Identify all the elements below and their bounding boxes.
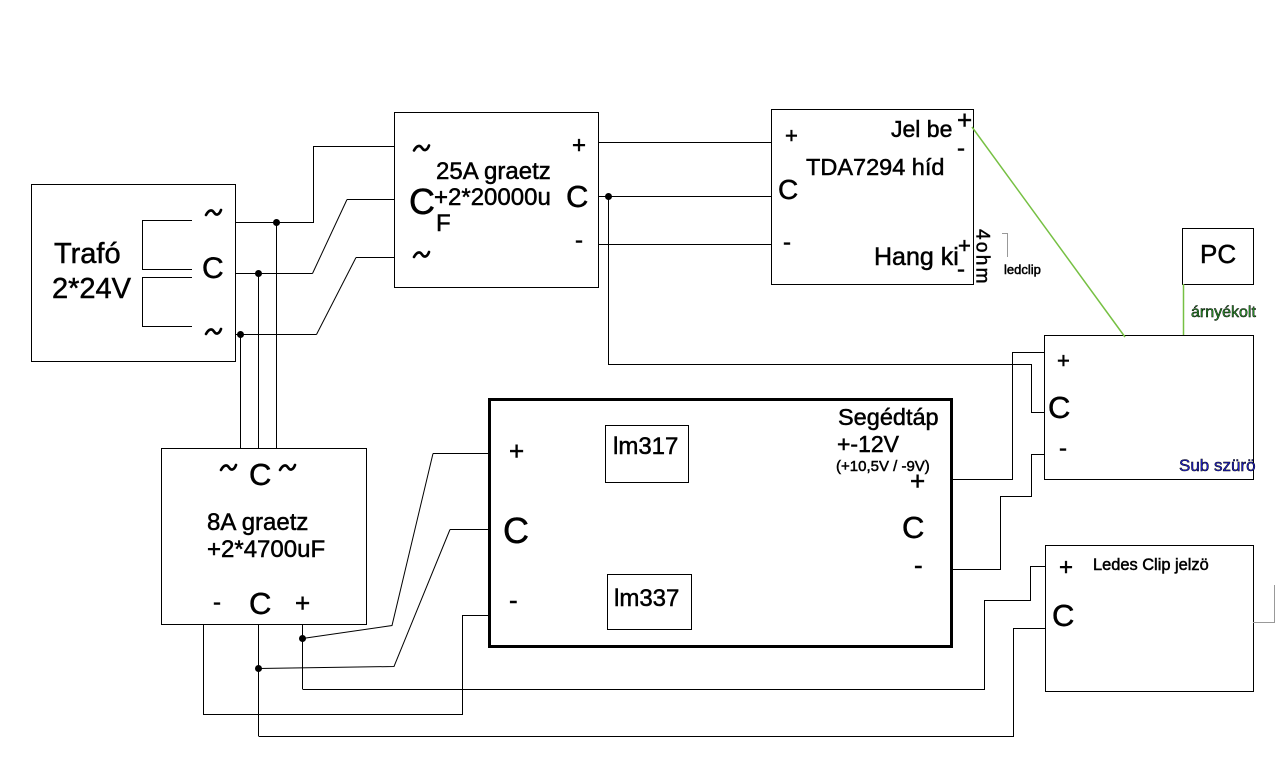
junction node on 8A C output <box>255 665 262 672</box>
wire segedtap + out to sub filter + <box>953 353 1044 480</box>
wire 8A C to ledes clip C <box>259 629 1046 737</box>
wire vertical from node A down to 8A <box>276 223 278 449</box>
wire trafo bottom ~ to 25A <box>235 334 317 336</box>
svg-text:TDA7294 híd: TDA7294 híd <box>806 154 944 180</box>
svg-text:25A graetz: 25A graetz <box>436 158 551 185</box>
svg-text:lm317: lm317 <box>613 433 678 460</box>
svg-text:Trafó: Trafó <box>54 238 121 270</box>
svg-text:-: - <box>957 256 965 283</box>
svg-text:C: C <box>249 457 271 492</box>
junction node on trafo C wire <box>255 270 262 277</box>
wire 25A + to TDA + <box>598 142 771 144</box>
wire trafo C to 25A <box>235 273 313 275</box>
wire segedtap C input stub <box>450 529 489 531</box>
svg-text:+: + <box>509 436 524 466</box>
rectifier box 8A graetz <box>162 449 367 625</box>
junction node on trafo top wire <box>273 219 280 226</box>
svg-text:Jel be: Jel be <box>891 116 952 142</box>
svg-text:+: + <box>958 233 971 258</box>
wire diagonal trafo C to 25A C <box>313 200 348 274</box>
label 8A right ~ <box>280 465 295 470</box>
bracket at ledes clip right side <box>1253 585 1275 623</box>
label trafo top ~ <box>206 210 221 215</box>
label 25A bottom ~ <box>414 252 429 257</box>
svg-text:Sub szürö: Sub szürö <box>1179 456 1256 475</box>
label 8A left ~ <box>221 465 236 470</box>
regulator box lm317 <box>606 426 689 483</box>
svg-text:PC: PC <box>1200 239 1236 269</box>
svg-text:C: C <box>902 510 924 545</box>
svg-text:C: C <box>409 181 435 222</box>
svg-text:C: C <box>1052 598 1074 633</box>
svg-text:8A graetz: 8A graetz <box>207 509 308 536</box>
svg-text:C: C <box>503 510 529 551</box>
junction node on trafo bottom wire <box>237 331 244 338</box>
winding symbol upper bracket <box>143 221 193 270</box>
wire 8A + down <box>302 624 304 689</box>
wire 8A - down and right <box>204 616 490 715</box>
wire 25A C stub segment <box>347 199 394 201</box>
wire 8A + to ledes clip + <box>303 567 1046 690</box>
svg-text:C: C <box>566 179 588 214</box>
rectifier box 25A graetz <box>395 113 599 288</box>
junction node on 25A C output <box>605 193 612 200</box>
transformer box Trafó 2*24V <box>32 185 236 362</box>
wire vertical from node B down to 8A <box>258 274 260 449</box>
wire diagonal trafo ~ to 25A ~ <box>317 258 357 335</box>
wire segedtap - out to sub filter - <box>953 455 1044 570</box>
wire vertical from node C down to 8A <box>240 335 242 449</box>
svg-text:+: + <box>910 466 925 496</box>
green signal wire Jel be to sub filter <box>972 127 1125 337</box>
svg-text:+-12V: +-12V <box>837 431 900 457</box>
LED clip indicator box Ledes Clip jelzö <box>1046 546 1254 692</box>
svg-text:-: - <box>509 585 518 615</box>
wire segedtap + input stub <box>433 453 489 455</box>
svg-text:C: C <box>778 174 798 205</box>
sub filter box Sub szürö <box>1045 336 1254 480</box>
svg-text:ledclip: ledclip <box>1004 262 1041 277</box>
wire diagonal 8A + to segedtap + <box>303 454 434 639</box>
amplifier box TDA7294 híd <box>772 110 974 285</box>
winding symbol lower bracket <box>143 278 193 327</box>
wire 25A bottom ~ stub segment <box>356 257 394 259</box>
svg-text:C: C <box>202 252 224 285</box>
svg-text:+: + <box>295 588 310 618</box>
svg-text:-: - <box>957 135 965 162</box>
svg-text:lm337: lm337 <box>614 585 679 612</box>
aux supply box Segédtáp <box>490 400 952 647</box>
PC box <box>1183 229 1254 285</box>
wire 25A - to TDA - <box>598 244 771 246</box>
svg-text:-: - <box>213 589 221 616</box>
svg-text:F: F <box>436 210 451 237</box>
svg-text:Hang ki: Hang ki <box>874 243 959 271</box>
wire 25A C to TDA C <box>598 196 771 198</box>
svg-text:+: + <box>1057 348 1070 373</box>
wire diagonal 8A C to segedtap C <box>259 530 451 669</box>
label trafo bottom ~ <box>206 329 221 334</box>
svg-text:+: + <box>957 105 972 135</box>
svg-text:Segédtáp: Segédtáp <box>838 404 939 430</box>
junction node on 8A + output <box>299 635 306 642</box>
svg-text:+2*20000u: +2*20000u <box>434 184 551 211</box>
svg-text:C: C <box>249 586 271 621</box>
svg-text:+: + <box>572 132 586 159</box>
svg-text:C: C <box>1048 390 1070 425</box>
svg-text:+: + <box>785 123 798 148</box>
svg-text:2*24V: 2*24V <box>52 273 132 305</box>
regulator box lm337 <box>608 575 692 630</box>
green shielded wire PC to sub filter <box>1183 284 1185 335</box>
svg-text:árnyékolt: árnyékolt <box>1191 304 1256 321</box>
svg-text:+2*4700uF: +2*4700uF <box>207 536 325 563</box>
svg-text:-: - <box>783 229 791 256</box>
svg-text:Ledes Clip jelzö: Ledes Clip jelzö <box>1093 556 1209 574</box>
wire 8A C down <box>258 624 260 736</box>
wire trafo top ~ to 25A <box>235 147 394 223</box>
ledclip bracket at TDA output <box>1002 234 1008 258</box>
wire 25A C node down and right to sub filter C <box>609 197 1045 413</box>
svg-text:-: - <box>914 550 923 580</box>
svg-text:-: - <box>1059 435 1067 462</box>
svg-text:-: - <box>575 227 583 254</box>
svg-text:4ohm: 4ohm <box>972 229 993 286</box>
svg-text:+: + <box>1059 554 1073 581</box>
label 25A top ~ <box>414 146 429 151</box>
